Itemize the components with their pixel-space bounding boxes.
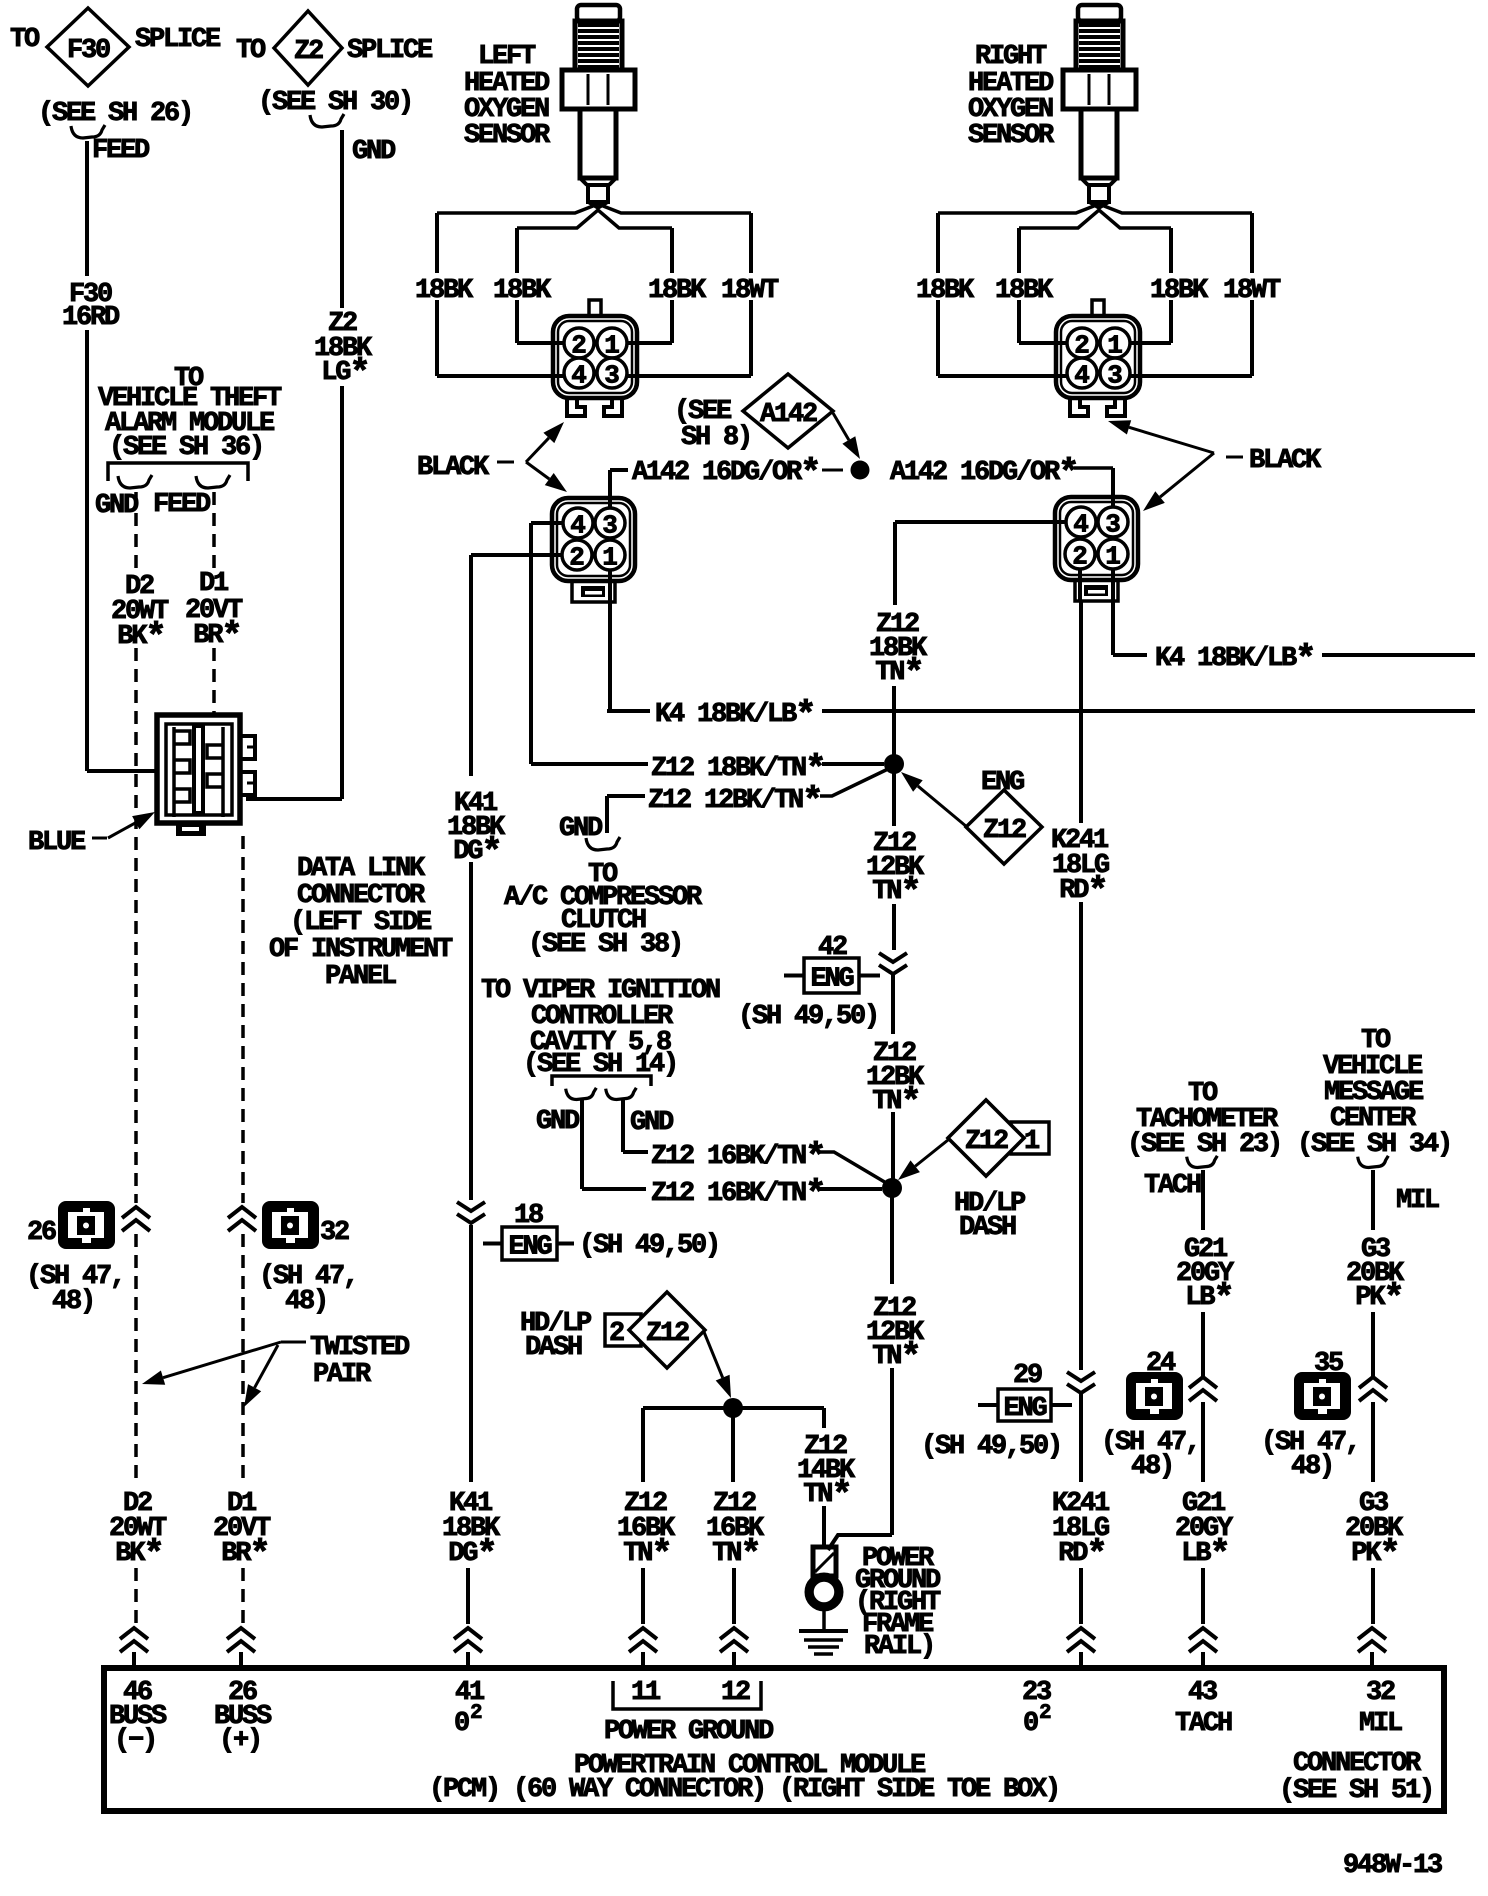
svg-text:RAIL): RAIL) <box>864 1632 934 1662</box>
svg-text:OF INSTRUMENT: OF INSTRUMENT <box>269 935 453 965</box>
svg-text:Z12 16BK/TN*: Z12 16BK/TN* <box>651 1174 824 1215</box>
svg-text:32: 32 <box>320 1218 349 1248</box>
svg-text:(SH 49,50): (SH 49,50) <box>579 1231 719 1261</box>
svg-text:48): 48) <box>285 1287 327 1317</box>
svg-text:3: 3 <box>604 361 620 391</box>
svg-text:32: 32 <box>1366 1678 1395 1708</box>
svg-text:TN*: TN* <box>872 1082 919 1123</box>
svg-text:K4 18BK/LB*: K4 18BK/LB* <box>655 695 814 736</box>
svg-text:0: 0 <box>454 1709 469 1739</box>
svg-text:SPLICE: SPLICE <box>347 36 433 66</box>
svg-text:ENG: ENG <box>1003 1394 1046 1424</box>
svg-text:DG*: DG* <box>448 1534 495 1575</box>
svg-text:4: 4 <box>1074 361 1090 391</box>
svg-text:LB*: LB* <box>1185 1278 1232 1319</box>
svg-text:Z12: Z12 <box>965 1127 1008 1157</box>
svg-text:TO: TO <box>10 25 40 55</box>
svg-text:SPLICE: SPLICE <box>135 25 221 55</box>
svg-text:(SEE SH 26): (SEE SH 26) <box>38 99 192 129</box>
svg-text:1: 1 <box>1105 542 1121 572</box>
svg-text:(SEE SH 36): (SEE SH 36) <box>109 433 263 463</box>
svg-text:(SEE SH 30): (SEE SH 30) <box>258 88 412 118</box>
svg-text:BK*: BK* <box>115 1534 162 1575</box>
svg-text:CONNECTOR: CONNECTOR <box>297 881 426 911</box>
svg-text:DG*: DG* <box>453 832 500 873</box>
svg-text:12: 12 <box>721 1678 750 1708</box>
svg-text:BLUE: BLUE <box>28 828 86 858</box>
svg-text:A142 16DG/OR*: A142 16DG/OR* <box>632 453 819 494</box>
svg-text:(SEE SH 51): (SEE SH 51) <box>1279 1776 1433 1806</box>
svg-text:3: 3 <box>1105 510 1121 540</box>
svg-text:DASH: DASH <box>525 1333 582 1363</box>
svg-text:LG*: LG* <box>321 353 368 394</box>
svg-text:2: 2 <box>571 331 587 361</box>
svg-text:GND: GND <box>559 814 603 844</box>
svg-text:26: 26 <box>27 1218 56 1248</box>
svg-text:DATA LINK: DATA LINK <box>297 854 426 884</box>
svg-text:2: 2 <box>609 1319 624 1349</box>
svg-text:BR*: BR* <box>221 1534 268 1575</box>
svg-text:ENG: ENG <box>810 965 853 995</box>
svg-text:Z2: Z2 <box>294 37 323 67</box>
svg-text:CONNECTOR: CONNECTOR <box>1293 1749 1422 1779</box>
svg-text:Z12 18BK/TN*: Z12 18BK/TN* <box>651 749 824 790</box>
svg-text:ENG: ENG <box>508 1233 551 1263</box>
svg-text:D1: D1 <box>199 569 229 599</box>
svg-text:DASH: DASH <box>959 1213 1016 1243</box>
svg-text:(−): (−) <box>114 1726 156 1756</box>
svg-text:48): 48) <box>1291 1452 1333 1482</box>
svg-text:18BK: 18BK <box>493 276 552 306</box>
svg-text:(SEE SH 23): (SEE SH 23) <box>1127 1130 1281 1160</box>
svg-text:18WT: 18WT <box>721 276 779 306</box>
svg-text:BLACK: BLACK <box>417 453 490 483</box>
svg-text:2: 2 <box>1039 1702 1052 1725</box>
svg-text:GND: GND <box>95 491 139 521</box>
svg-text:18WT: 18WT <box>1223 276 1281 306</box>
svg-text:TN*: TN* <box>875 653 922 694</box>
svg-text:FEED: FEED <box>92 136 150 166</box>
svg-text:2: 2 <box>470 1702 483 1725</box>
svg-text:PAIR: PAIR <box>313 1360 372 1390</box>
svg-text:TN*: TN* <box>623 1534 670 1575</box>
svg-text:RIGHT: RIGHT <box>975 42 1047 72</box>
svg-text:K4 18BK/LB*: K4 18BK/LB* <box>1155 639 1314 680</box>
svg-text:TN*: TN* <box>803 1475 850 1516</box>
svg-text:(LEFT SIDE: (LEFT SIDE <box>290 908 432 938</box>
svg-text:(SEE SH 34): (SEE SH 34) <box>1297 1130 1451 1160</box>
svg-text:F30: F30 <box>67 36 110 66</box>
svg-text:Z12: Z12 <box>983 816 1026 846</box>
svg-text:TACH: TACH <box>1175 1709 1232 1739</box>
svg-text:18BK: 18BK <box>415 276 474 306</box>
svg-text:TWISTED: TWISTED <box>310 1333 410 1363</box>
svg-text:3: 3 <box>602 511 618 541</box>
svg-text:18BK: 18BK <box>1150 276 1209 306</box>
svg-text:4: 4 <box>1073 510 1089 540</box>
svg-text:1: 1 <box>1107 331 1123 361</box>
svg-text:A142 16DG/OR*: A142 16DG/OR* <box>890 453 1077 494</box>
svg-text:BK*: BK* <box>117 617 164 658</box>
svg-text:1: 1 <box>604 331 620 361</box>
svg-text:TO: TO <box>236 36 266 66</box>
svg-text:18BK: 18BK <box>916 276 975 306</box>
svg-text:LEFT: LEFT <box>478 42 536 72</box>
svg-text:PANEL: PANEL <box>325 962 396 992</box>
svg-text:4: 4 <box>571 361 587 391</box>
svg-text:(SH 49,50): (SH 49,50) <box>738 1002 878 1032</box>
svg-text:3: 3 <box>1107 361 1123 391</box>
svg-text:2: 2 <box>1072 542 1088 572</box>
svg-text:2: 2 <box>1074 331 1090 361</box>
svg-text:16RD: 16RD <box>62 303 120 333</box>
svg-text:(PCM) (60 WAY CONNECTOR) (RIGH: (PCM) (60 WAY CONNECTOR) (RIGHT SIDE TOE… <box>429 1775 1059 1805</box>
svg-text:(+): (+) <box>219 1726 261 1756</box>
svg-text:2: 2 <box>569 543 585 573</box>
svg-text:29: 29 <box>1013 1361 1042 1391</box>
svg-text:43: 43 <box>1188 1678 1217 1708</box>
svg-text:48): 48) <box>1131 1452 1173 1482</box>
svg-text:SENSOR: SENSOR <box>464 121 551 151</box>
svg-text:48): 48) <box>52 1287 94 1317</box>
svg-text:18BK: 18BK <box>648 276 707 306</box>
svg-text:1: 1 <box>1024 1127 1040 1157</box>
svg-text:SENSOR: SENSOR <box>968 121 1055 151</box>
svg-text:0: 0 <box>1023 1709 1038 1739</box>
svg-text:948W-13: 948W-13 <box>1343 1851 1442 1881</box>
svg-text:18BK: 18BK <box>995 276 1054 306</box>
svg-text:TACH: TACH <box>1144 1171 1201 1201</box>
svg-text:MIL: MIL <box>1359 1709 1402 1739</box>
svg-text:MIL: MIL <box>1396 1186 1439 1216</box>
svg-text:BLACK: BLACK <box>1249 446 1322 476</box>
svg-text:GND: GND <box>352 137 396 167</box>
svg-text:BR*: BR* <box>193 616 240 657</box>
svg-text:Z12 12BK/TN*: Z12 12BK/TN* <box>648 781 821 822</box>
svg-text:GND: GND <box>630 1108 674 1138</box>
svg-text:(SH 49,50): (SH 49,50) <box>921 1432 1061 1462</box>
svg-text:PK*: PK* <box>1355 1278 1402 1319</box>
svg-text:Z12 16BK/TN*: Z12 16BK/TN* <box>651 1137 824 1178</box>
svg-text:Z12: Z12 <box>646 1319 689 1349</box>
svg-text:11: 11 <box>631 1678 661 1708</box>
svg-text:SH 8): SH 8) <box>681 423 751 453</box>
svg-text:POWER GROUND: POWER GROUND <box>604 1717 774 1747</box>
svg-text:4: 4 <box>570 511 586 541</box>
svg-text:GND: GND <box>536 1107 580 1137</box>
svg-text:TN*: TN* <box>872 1337 919 1378</box>
svg-text:FEED: FEED <box>153 490 211 520</box>
svg-text:(SEE SH 38): (SEE SH 38) <box>528 930 682 960</box>
svg-text:1: 1 <box>602 543 618 573</box>
svg-text:A142: A142 <box>760 400 817 430</box>
